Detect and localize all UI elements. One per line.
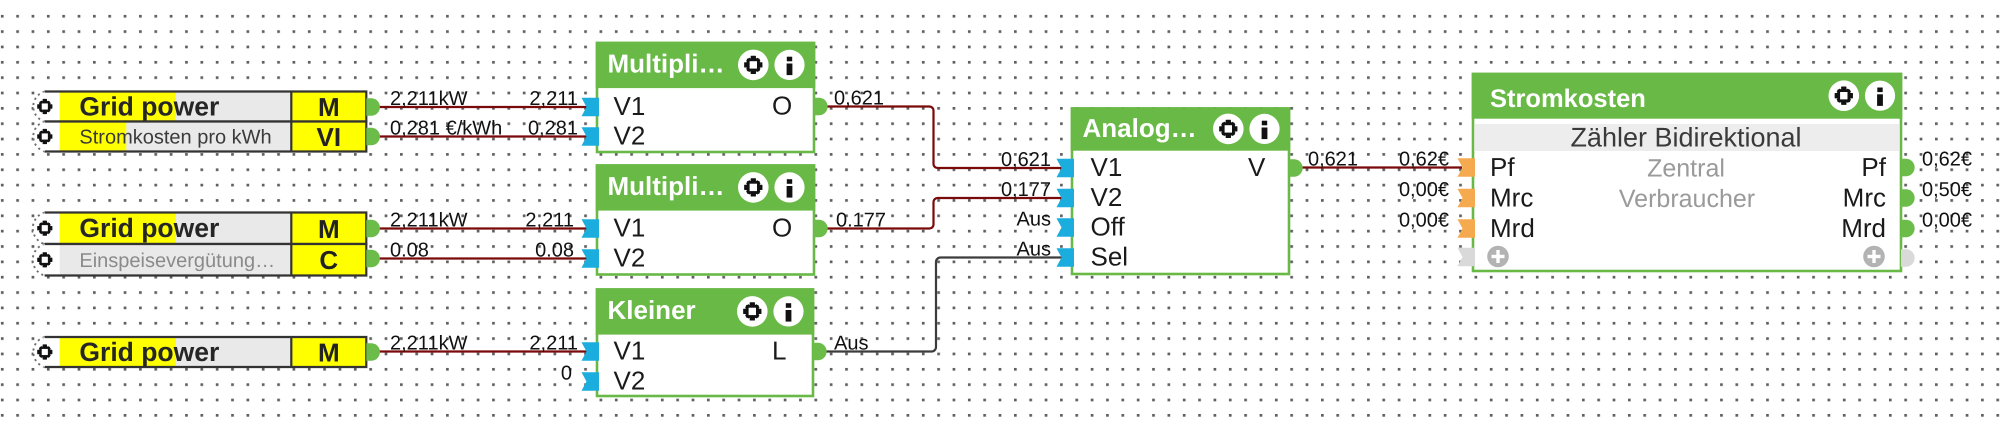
wire Multiplier2 O to Analog V2 [826,198,1062,229]
svg-text:0,281 €/kWh: 0,281 €/kWh [390,118,502,140]
wire Kleiner L to Analog Sel [826,258,1062,352]
function block Analog U4 [1072,109,1289,275]
svg-text:Off: Off [1091,212,1126,242]
svg-text:Mrd: Mrd [1490,213,1535,243]
pin Mrd input of Stromkosten [1458,219,1476,238]
grey output nub of Stromkosten [1901,249,1915,267]
input block Einspeiseverguetung C [33,244,45,276]
svg-text:C: C [319,245,338,275]
svg-text:Pf: Pf [1861,152,1886,182]
svg-text:0,281: 0,281 [528,118,578,140]
svg-text:Verbraucher: Verbraucher [1619,185,1755,213]
svg-text:Multipli…: Multipli… [608,49,725,79]
svg-text:Mrc: Mrc [1490,183,1533,213]
svg-text:0,621: 0,621 [834,88,884,110]
svg-text:Grid power: Grid power [79,92,219,122]
pin Mrc input of Stromkosten [1458,189,1476,208]
svg-text:2,211: 2,211 [529,88,578,110]
wire Analog V to Stromkosten Pf [1301,166,1462,168]
pin V1 of Analog [1057,159,1075,178]
function block Multiplier U2 [597,166,814,275]
svg-text:L: L [772,336,786,366]
pin V1 of Kleiner [582,342,600,361]
input block Grid power M (middle) [33,213,45,245]
svg-text:M: M [318,92,340,122]
svg-text:O: O [772,91,792,121]
svg-text:2,211: 2,211 [529,333,578,355]
wire Grid power M to Multiplier2 V1 [379,227,590,229]
wire Einspeiseverguetung C to Multiplier2 V2 [379,257,590,259]
plus button left [1487,246,1509,268]
svg-text:Aus: Aus [834,333,868,355]
svg-text:Stromkosten pro kWh: Stromkosten pro kWh [79,127,271,149]
pin V1 of Multiplier2 [582,219,600,238]
plus button right [1863,246,1885,268]
svg-text:VI: VI [317,122,342,152]
svg-text:2,211kW: 2,211kW [390,210,468,232]
svg-text:Mrc: Mrc [1843,183,1886,213]
svg-text:V2: V2 [614,121,646,151]
svg-text:Aus: Aus [1017,239,1051,261]
svg-text:0,621: 0,621 [1001,149,1051,171]
input block Grid power M (top) [33,92,44,122]
svg-text:M: M [318,338,340,368]
pin Sel of Analog [1057,248,1075,267]
svg-text:Grid power: Grid power [79,337,219,367]
svg-text:0,00€: 0,00€ [1922,210,1972,232]
svg-text:0,50€: 0,50€ [1922,179,1972,201]
svg-text:0: 0 [561,363,572,385]
svg-text:V2: V2 [614,366,646,396]
wire Stromkosten pro kWh VI to Multiplier1 V2 [379,135,590,137]
svg-text:0.08: 0.08 [535,240,574,262]
svg-text:Analog…: Analog… [1083,113,1197,143]
svg-text:Sel: Sel [1091,242,1129,272]
svg-text:Zentral: Zentral [1647,155,1725,183]
svg-text:Multipli…: Multipli… [608,171,725,201]
input block Stromkosten pro kWh VI [33,122,44,152]
svg-text:Zähler Bidirektional: Zähler Bidirektional [1570,123,1801,153]
svg-text:V2: V2 [614,243,646,273]
svg-text:V1: V1 [1091,152,1123,182]
svg-text:V1: V1 [614,91,646,121]
svg-text:V2: V2 [1091,182,1123,212]
function block Kleiner U3 [597,290,813,397]
svg-text:2,211kW: 2,211kW [390,333,468,355]
wire Multiplier1 O to Analog V1 [826,107,1062,169]
pin Off of Analog [1057,218,1075,237]
pin V1 of Multiplier1 [582,98,600,117]
svg-text:Einspeisevergütung…: Einspeisevergütung… [79,250,275,272]
svg-text:V1: V1 [614,213,646,243]
svg-text:2,211kW: 2,211kW [390,88,468,110]
svg-text:0,62€: 0,62€ [1922,149,1972,171]
svg-text:Grid power: Grid power [79,213,219,243]
svg-text:0,00€: 0,00€ [1399,179,1449,201]
grey expand tab of Stromkosten [1458,248,1476,267]
pin V2 of Kleiner [582,372,600,391]
svg-text:O: O [772,213,792,243]
svg-text:V1: V1 [614,336,646,366]
svg-text:Pf: Pf [1490,152,1515,182]
svg-text:Stromkosten: Stromkosten [1490,85,1646,113]
svg-text:0.08: 0.08 [390,240,429,262]
svg-text:2,211: 2,211 [525,210,574,232]
pin V2 of Multiplier2 [582,249,600,268]
svg-text:0,62€: 0,62€ [1399,149,1449,171]
function block Multiplier U1 [597,43,814,152]
svg-text:0,00€: 0,00€ [1399,210,1449,232]
pin V2 of Analog [1057,189,1075,208]
svg-text:Aus: Aus [1017,209,1051,231]
pin Pf input of Stromkosten [1458,158,1476,177]
wire Grid power M to Multiplier1 V1 [379,106,590,108]
svg-text:0,177: 0,177 [1001,179,1051,201]
svg-text:V: V [1248,152,1266,182]
svg-text:Kleiner: Kleiner [608,295,696,325]
input block Grid power M (bottom) [33,337,44,367]
svg-text:0.177: 0.177 [836,210,886,232]
svg-text:0,621: 0,621 [1308,149,1358,171]
function block Stromkosten U5 [1473,74,1901,271]
svg-text:Mrd: Mrd [1841,213,1886,243]
pin V2 of Multiplier1 [582,127,600,146]
svg-text:M: M [318,214,340,244]
wire Grid power M to Kleiner V1 [379,350,590,352]
subtitle band Zaehler Bidirektional [1474,124,1899,151]
